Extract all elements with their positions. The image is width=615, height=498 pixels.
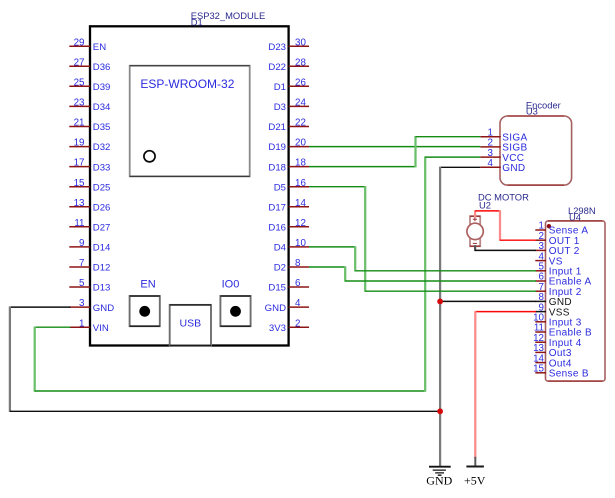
svg-text:11: 11	[74, 218, 84, 229]
wire motor - to L298N OUT 2	[475, 245, 536, 251]
wire D2 to L298N Enable A	[309, 266, 536, 281]
ESP32 pin 13 D26	[69, 198, 110, 214]
svg-text:D35: D35	[93, 122, 111, 133]
encoder pin 3 VCC	[480, 148, 524, 164]
svg-text:D25: D25	[93, 182, 111, 193]
svg-text:4: 4	[488, 158, 494, 169]
L298N pin 3 OUT 2	[535, 241, 580, 257]
svg-text:EN: EN	[93, 42, 106, 53]
ESP32 pin 19 D32	[69, 138, 110, 154]
svg-text:VIN: VIN	[93, 323, 109, 334]
designator U2	[479, 200, 491, 211]
wire VIN to encoder VCC	[35, 156, 481, 391]
ESP32 pin 22 D21	[268, 118, 309, 134]
ESP32 pin 24 D3	[274, 98, 309, 114]
ESP32 pin 21 D35	[69, 118, 110, 134]
svg-text:25: 25	[74, 77, 85, 88]
svg-text:GND: GND	[426, 474, 452, 488]
designator D1	[191, 17, 203, 28]
svg-text:GND: GND	[502, 163, 525, 174]
wire D18 to encoder SIGA	[309, 136, 480, 167]
ESP32 pin 16 D5	[274, 178, 309, 194]
wire L298N VSS to +5V	[475, 311, 536, 458]
L298N pin 8 GND	[535, 292, 572, 308]
svg-text:29: 29	[74, 37, 85, 48]
svg-text:D1: D1	[191, 17, 203, 28]
ESP32 pin 7 D12	[69, 258, 110, 274]
wire D4 to L298N Input 1	[309, 246, 536, 271]
svg-text:D33: D33	[93, 162, 111, 173]
wire D5 to L298N Input 2	[309, 186, 536, 292]
ESP32 pin 26 D1	[274, 77, 309, 93]
ESP32 pin 2 3V3	[269, 318, 309, 334]
label ESP32_MODULE	[191, 10, 266, 21]
svg-text:ESP-WROOM-32: ESP-WROOM-32	[140, 77, 234, 91]
svg-text:D19: D19	[268, 142, 286, 153]
label Encoder	[526, 99, 561, 110]
svg-text:19: 19	[74, 138, 85, 149]
svg-text:D14: D14	[93, 243, 111, 254]
svg-text:18: 18	[295, 158, 306, 169]
junction ground rail / L298N GND	[437, 299, 443, 305]
svg-text:16: 16	[295, 178, 306, 189]
ESP32 pin 30 D23	[268, 37, 309, 53]
ESP32 pin 3 GND	[69, 298, 114, 314]
L298N pin 2 OUT 1	[535, 231, 580, 247]
ground rail wire	[439, 167, 441, 467]
EN button	[130, 278, 160, 326]
L298N pin 9 VSS	[535, 302, 569, 318]
svg-text:D21: D21	[268, 122, 286, 133]
svg-text:D15: D15	[268, 283, 286, 294]
svg-text:6: 6	[295, 278, 301, 289]
svg-text:20: 20	[295, 138, 306, 149]
wire encoder GND to ground rail	[440, 166, 480, 168]
svg-text:U3: U3	[526, 106, 538, 117]
svg-text:D23: D23	[268, 42, 286, 53]
ground symbol	[426, 467, 452, 488]
svg-text:IO0: IO0	[222, 278, 240, 290]
svg-text:+5V: +5V	[464, 474, 486, 488]
ESP32 pin 12 D16	[268, 218, 309, 234]
svg-text:10: 10	[295, 238, 306, 249]
svg-text:D22: D22	[268, 62, 286, 73]
ESP32 pin 10 D4	[274, 238, 309, 254]
svg-text:14: 14	[295, 198, 306, 209]
svg-text:23: 23	[74, 98, 85, 109]
DC motor U2 body	[467, 216, 483, 246]
L298N pin 14 Out4	[533, 353, 572, 369]
L298N U4 body	[546, 221, 606, 381]
svg-text:9: 9	[79, 238, 84, 249]
svg-text:15: 15	[533, 364, 544, 375]
svg-text:D1: D1	[274, 82, 286, 93]
svg-text:4: 4	[295, 298, 301, 309]
designator U3	[526, 106, 538, 117]
svg-text:D13: D13	[93, 283, 111, 294]
svg-text:D34: D34	[93, 102, 111, 113]
svg-text:D32: D32	[93, 142, 111, 153]
L298N pin 12 Input 4	[533, 333, 582, 349]
svg-text:17: 17	[74, 158, 85, 169]
L298N pin 4 VS	[535, 251, 562, 267]
ESP32 pin 29 EN	[69, 37, 106, 53]
label DC MOTOR	[478, 192, 529, 203]
svg-text:2: 2	[295, 318, 300, 329]
svg-text:24: 24	[295, 98, 306, 109]
ESP32 pin 4 GND	[265, 298, 309, 314]
ESP32 pin 1 VIN	[69, 318, 109, 334]
ESP32 pin 25 D39	[69, 77, 110, 93]
svg-text:27: 27	[74, 57, 85, 68]
encoder pin 2 SIGB	[480, 138, 527, 154]
encoder pin 1 SIGA	[480, 128, 527, 144]
IO0 button	[220, 278, 250, 326]
ESP32 pin 9 D14	[69, 238, 111, 254]
svg-text:EN: EN	[140, 278, 155, 290]
label L298N	[568, 205, 596, 216]
svg-text:5: 5	[79, 278, 85, 289]
svg-text:D36: D36	[93, 62, 111, 73]
L298N pin 5 Input 1	[535, 262, 582, 278]
svg-text:U2: U2	[479, 200, 491, 211]
encoder U3 body	[500, 116, 572, 185]
svg-text:26: 26	[295, 77, 306, 88]
svg-text:7: 7	[79, 258, 84, 269]
svg-text:D2: D2	[274, 263, 286, 274]
L298N pin 11 Enable B	[534, 323, 592, 339]
ESP32 pin 23 D34	[69, 98, 111, 114]
ESP32 pin 27 D36	[69, 57, 110, 73]
svg-text:3: 3	[79, 298, 85, 309]
svg-text:28: 28	[295, 57, 306, 68]
svg-text:D16: D16	[268, 223, 286, 234]
designator U4	[569, 211, 581, 222]
ESP32 pin 6 D15	[268, 278, 309, 294]
svg-text:D39: D39	[93, 82, 111, 93]
svg-text:D5: D5	[274, 182, 286, 193]
svg-text:12: 12	[295, 218, 306, 229]
svg-text:D3: D3	[274, 102, 286, 113]
svg-text:8: 8	[295, 258, 301, 269]
svg-text:U4: U4	[569, 211, 581, 222]
svg-text:D4: D4	[274, 243, 287, 254]
svg-text:GND: GND	[265, 303, 286, 314]
svg-text:D17: D17	[268, 203, 286, 214]
L298N pin 6 Enable A	[535, 272, 591, 288]
svg-text:D26: D26	[93, 203, 111, 214]
svg-text:Sense B: Sense B	[549, 369, 589, 380]
svg-text:30: 30	[295, 37, 306, 48]
ESP32 pin 5 D13	[69, 278, 110, 294]
svg-text:D27: D27	[93, 223, 111, 234]
wire ground rail to L298N GND	[440, 300, 536, 302]
+5V terminal	[464, 457, 486, 488]
wire ESP GND to ground rail	[10, 306, 440, 412]
svg-text:3V3: 3V3	[269, 323, 286, 334]
ESP32 pin 11 D27	[69, 218, 110, 234]
ESP32 pin 28 D22	[268, 57, 309, 73]
ESP32 pin 20 D19	[268, 138, 309, 154]
L298N pin 1 Sense A	[535, 221, 588, 237]
svg-text:1: 1	[79, 318, 84, 329]
wire D19 to encoder SIGB	[309, 146, 480, 148]
svg-text:22: 22	[295, 118, 306, 129]
svg-text:21: 21	[74, 118, 85, 129]
ESP32 pin 18 D18	[268, 158, 309, 174]
L298N pin 10 Input 3	[533, 313, 582, 329]
wire motor + to L298N OUT 1	[475, 210, 536, 241]
L298N pin 13 Out3	[533, 343, 572, 359]
encoder pin 4 GND	[480, 158, 525, 174]
ESP32 module D1 body	[90, 26, 289, 345]
svg-text:15: 15	[74, 178, 85, 189]
svg-text:13: 13	[74, 198, 85, 209]
ESP32 pin 17 D33	[69, 158, 110, 174]
ESP32 pin 15 D25	[69, 178, 110, 194]
L298N pin 1 marker dot	[547, 224, 551, 228]
svg-text:D12: D12	[93, 263, 111, 274]
svg-text:D18: D18	[268, 162, 286, 173]
ESP32 pin 8 D2	[274, 258, 309, 274]
L298N pin 15 Sense B	[533, 364, 589, 380]
ESP32 pin 14 D17	[268, 198, 309, 214]
svg-text:GND: GND	[93, 303, 114, 314]
USB connector	[170, 305, 211, 346]
L298N pin 7 Input 2	[535, 282, 582, 298]
junction ground rail / ESP GND	[437, 408, 443, 414]
ESP-WROOM-32 sub-module box	[130, 66, 250, 177]
svg-text:USB: USB	[180, 317, 202, 329]
